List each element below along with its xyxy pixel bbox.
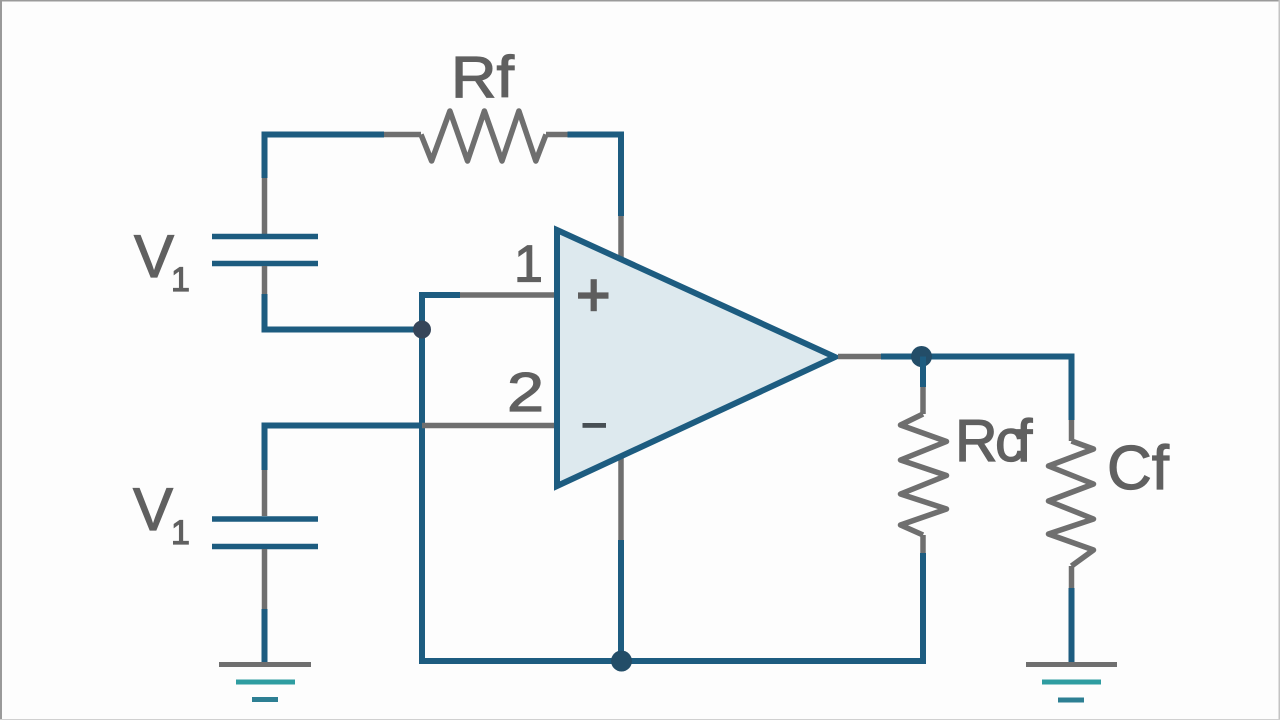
svg-text:f: f — [1016, 408, 1033, 474]
wire: vertical from node A down to bottom rail — [419, 330, 425, 662]
wire: below V1 bottom down to ground (gray then blue) — [262, 549, 268, 609]
wire: node A up-corner to non-inverting input (blue then gray) — [422, 295, 460, 332]
wire: top-right horizontal to feedback corner (blue) — [568, 132, 625, 138]
source V1 (top, capacitor-style plates) — [212, 234, 318, 240]
ground (left) — [219, 662, 311, 667]
ground (right) — [1026, 662, 1117, 667]
op-amp U1 — [557, 230, 835, 486]
svg-text:V: V — [134, 223, 174, 290]
wire: inverting input horizontal (blue left of crossing, gray to op-amp) — [262, 423, 423, 429]
svg-text:1: 1 — [171, 261, 190, 299]
op-amp plus symbol — [578, 292, 609, 298]
svg-text:Rf: Rf — [451, 45, 515, 110]
wire: below V1 top cap, gray then blue, corner to node A — [262, 266, 268, 294]
wire: op-amp output (gray then blue) — [838, 354, 881, 360]
op-amp minus symbol — [583, 423, 607, 428]
svg-text:1: 1 — [171, 514, 190, 552]
source V1 (bottom, capacitor-style plates) — [212, 516, 318, 522]
capacitor Cf (drawn as vertical zigzag) — [1049, 441, 1094, 566]
wire: Cf bottom lead (gray then blue) — [1069, 566, 1075, 588]
wire: gray lead out of Rf — [546, 132, 568, 138]
wire: left vertical from inverting corner down to V1 bottom (blue then gray) — [262, 423, 268, 471]
wire: bottom rail — [419, 658, 926, 664]
node B junction dot (output) — [911, 346, 932, 367]
svg-text:2: 2 — [507, 361, 544, 423]
wire: top-left horizontal from V1 top to Rf (blue part) — [262, 132, 385, 138]
wire: Rd bottom lead (gray then blue) — [920, 535, 926, 553]
frame edges — [0, 0, 1280, 2]
node A junction dot — [413, 321, 431, 339]
wire: output corner down to Cf (blue) — [1069, 354, 1075, 421]
wire: Rd top lead (blue then gray) — [920, 357, 926, 388]
resistor Rd (vertical zigzag) — [901, 414, 947, 535]
resistor Rf (zigzag) — [421, 111, 546, 161]
node C junction dot (bottom rail) — [611, 651, 632, 672]
svg-text:1: 1 — [514, 236, 543, 294]
svg-text:Cf: Cf — [1107, 434, 1170, 503]
wire: feedback vertical behind op-amp (blue, gray segment) — [618, 132, 624, 217]
wire: top horizontal gray lead into Rf — [384, 132, 421, 138]
svg-text:R: R — [955, 408, 998, 474]
wire: left vertical from top corner down (blue then gray) — [262, 132, 268, 179]
svg-text:V: V — [133, 476, 173, 543]
